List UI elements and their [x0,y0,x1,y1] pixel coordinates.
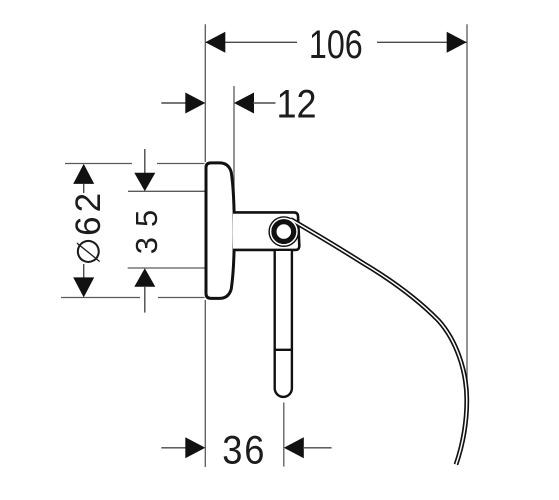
arrow 35 bottom [134,268,155,287]
rod cross line [274,349,293,351]
dim 35 extension bottom [128,267,205,269]
roll holder rod [275,251,292,397]
arrow 12 right [234,93,254,114]
bracket body [233,212,299,250]
wall plate (side view) [206,163,234,299]
dimension 12 [161,102,186,104]
arrow 62 bottom [73,277,94,297]
pivot hub (black ring, white hole) [274,222,294,242]
arrow 35 top [134,173,155,192]
arrow 36 left [185,437,205,458]
arrow 12 left [185,93,205,114]
svg-text:35: 35 [129,200,164,254]
svg-text:62: 62 [69,189,108,236]
label 36 [222,428,266,473]
arrow 36 right [284,437,304,458]
svg-text:12: 12 [276,83,316,127]
dimension 36 [161,447,186,449]
arrow 62 top [73,164,94,184]
spring wire white core [291,219,467,464]
wire wrap around pivot (outer black ring) [271,218,297,244]
dia 62 extension bottom [61,297,140,299]
dim 62 vertical line + stems [83,184,85,193]
dimension 106 line [206,41,297,43]
label dia 62 (rotated) [69,189,108,265]
dim 35 extension top [128,190,205,192]
dia 62 extension top [65,163,132,165]
arrow 106 left [205,32,225,53]
spring wire (outer black) [291,219,467,464]
label 35 (rotated) [129,200,164,254]
extension line below plate (36 left) [204,300,206,467]
extension line x=234 for 12 [233,86,235,212]
label 106 [309,22,363,67]
extension line left (x=205) from top to plate [204,24,206,162]
label 12 [276,83,316,127]
arrow 106 right [447,32,467,53]
svg-text:106: 106 [309,22,363,67]
svg-text:36: 36 [222,428,266,473]
extension line right (x=467) from top to wire [466,24,468,380]
svg-text:∅: ∅ [70,237,106,265]
35 bottom stem [144,286,146,313]
wire wrap white core [271,218,297,244]
extension line rod bottom (36 right) [283,403,285,467]
35 top stem [144,149,146,175]
